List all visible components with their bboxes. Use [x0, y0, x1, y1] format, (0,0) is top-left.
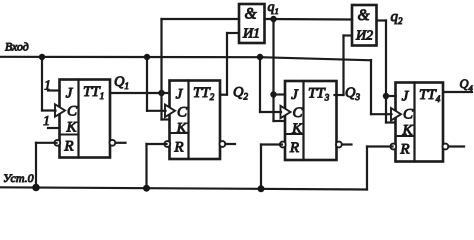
- svg-text:1: 1: [44, 78, 51, 93]
- svg-text:R: R: [289, 140, 299, 156]
- svg-text:&: &: [357, 7, 369, 24]
- svg-text:C: C: [67, 104, 78, 120]
- svg-text:1: 1: [43, 113, 50, 128]
- svg-text:J: J: [66, 86, 74, 102]
- svg-text:Q4: Q4: [460, 77, 474, 93]
- svg-text:Вход: Вход: [5, 40, 29, 54]
- svg-text:C: C: [177, 105, 188, 121]
- svg-text:q2: q2: [391, 9, 404, 26]
- svg-text:И2: И2: [355, 29, 373, 44]
- svg-text:TT4: TT4: [419, 87, 441, 104]
- svg-text:Q3: Q3: [345, 85, 360, 102]
- svg-text:J: J: [291, 87, 299, 103]
- svg-text:K: K: [291, 121, 303, 137]
- svg-text:Q2: Q2: [233, 85, 248, 102]
- svg-text:R: R: [173, 140, 183, 156]
- svg-text:q1: q1: [268, 0, 279, 16]
- svg-text:C: C: [403, 107, 414, 123]
- svg-text:K: K: [65, 120, 77, 136]
- svg-text:Q1: Q1: [114, 74, 129, 91]
- svg-text:R: R: [399, 142, 409, 158]
- svg-text:R: R: [63, 139, 73, 155]
- svg-text:J: J: [176, 87, 184, 103]
- svg-text:J: J: [402, 89, 410, 105]
- svg-text:И1: И1: [242, 27, 260, 42]
- svg-text:C: C: [292, 105, 303, 121]
- svg-text:TT1: TT1: [83, 84, 104, 101]
- svg-text:K: K: [175, 121, 187, 137]
- svg-text:TT3: TT3: [308, 86, 330, 103]
- svg-text:TT2: TT2: [193, 85, 215, 102]
- svg-text:Уст.0: Уст.0: [3, 171, 34, 185]
- svg-text:K: K: [401, 123, 413, 139]
- svg-text:&: &: [244, 6, 256, 23]
